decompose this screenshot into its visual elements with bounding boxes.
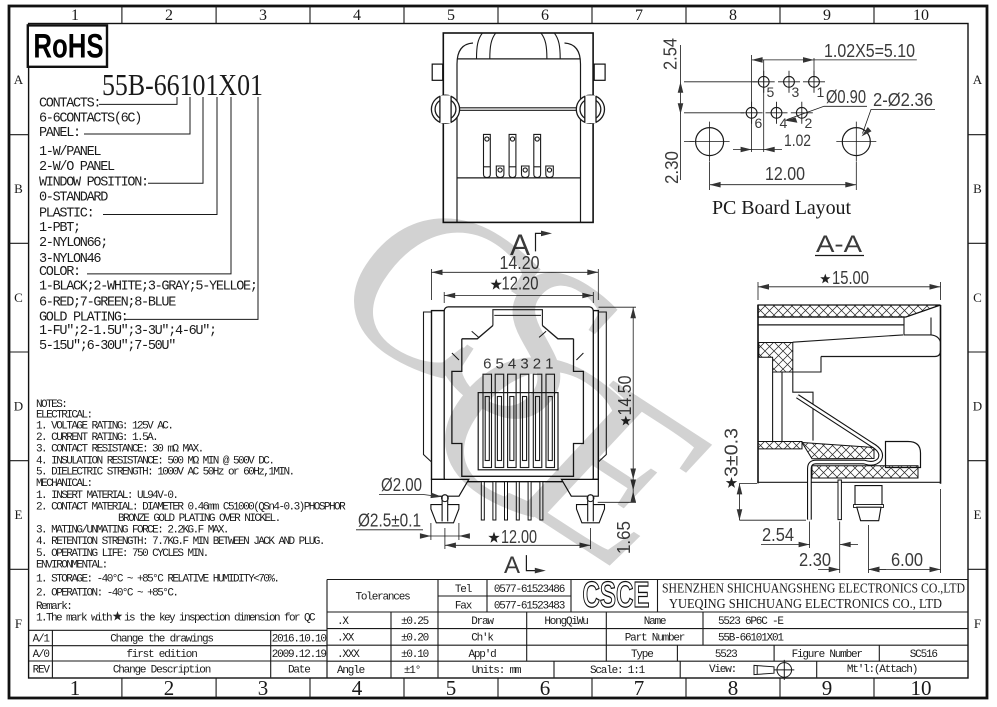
svg-text:1: 1 — [70, 676, 81, 700]
svg-text:2: 2 — [165, 7, 173, 24]
top view outer body — [443, 33, 593, 222]
svg-text:5: 5 — [767, 84, 775, 100]
svg-text:Draw: Draw — [471, 616, 494, 628]
svg-text:15.00: 15.00 — [832, 268, 869, 288]
svg-text:2.54: 2.54 — [762, 525, 794, 545]
svg-text:4: 4 — [353, 7, 361, 24]
svg-text:.X: .X — [337, 616, 349, 628]
top view inner top shelf line — [457, 58, 581, 60]
svg-text:±1°: ±1° — [404, 665, 420, 677]
dim 3+-0.3 (A-A left) — [722, 428, 807, 520]
dim 12.00 (front bottom) — [445, 527, 591, 549]
svg-text:6: 6 — [540, 676, 551, 700]
svg-text:9: 9 — [823, 7, 831, 24]
svg-text:5: 5 — [446, 676, 457, 700]
svg-text:A/0: A/0 — [33, 649, 50, 661]
svg-text:10: 10 — [911, 676, 932, 700]
section outer top hatched shell — [758, 305, 941, 317]
svg-text:A-A: A-A — [816, 231, 862, 258]
svg-text:A: A — [973, 72, 983, 87]
svg-text:10: 10 — [913, 7, 929, 24]
front body rounded rect — [444, 307, 593, 482]
svg-text:2-Ø2.36: 2-Ø2.36 — [873, 90, 933, 110]
svg-text:2-W/O PANEL: 2-W/O PANEL — [39, 160, 115, 175]
svg-text:7: 7 — [635, 7, 643, 24]
svg-text:6-6CONTACTS(6C): 6-6CONTACTS(6C) — [39, 111, 141, 126]
revision table — [29, 630, 327, 677]
svg-text:1.02: 1.02 — [784, 131, 811, 150]
svg-text:D: D — [14, 399, 23, 414]
svg-text:.XX: .XX — [337, 633, 355, 645]
svg-text:7: 7 — [634, 676, 645, 700]
svg-text:4. INSULATION RESISTANCE: 500: 4. INSULATION RESISTANCE: 500 MΩ MIN @ 5… — [36, 455, 273, 467]
svg-text:Figure Number: Figure Number — [792, 649, 863, 661]
svg-text:5-15U″;6-30U″;7-50U″: 5-15U″;6-30U″;7-50U″ — [39, 339, 175, 354]
front contact numbers 6 5 4 3 2 1 — [483, 356, 553, 373]
dim 14.20 (front top) — [432, 253, 599, 300]
svg-text:PC Board Layout: PC Board Layout — [712, 197, 851, 219]
section left hatch block — [759, 343, 793, 373]
notes block — [36, 399, 346, 624]
svg-text:4: 4 — [352, 676, 363, 700]
svg-text:3: 3 — [259, 7, 267, 24]
pin holes small top row 5 3 1 — [746, 76, 819, 118]
svg-text:1-FU″;2-1.5U″;3-3U″;4-6U″;: 1-FU″;2-1.5U″;3-3U″;4-6U″; — [39, 324, 216, 339]
svg-text:55B-66101X01: 55B-66101X01 — [102, 67, 263, 102]
dim 12.20 (front) — [444, 274, 593, 304]
dim 1.65 (front right) — [598, 480, 636, 555]
section bottom line — [758, 481, 941, 483]
svg-text:1.The mark with: 1.The mark with — [36, 612, 112, 624]
svg-text:3. MATING/UNMATING FORCE: 2.2K: 3. MATING/UNMATING FORCE: 2.2KG.F MAX. — [36, 525, 228, 537]
dim 2.30 (pcb left) — [681, 113, 695, 180]
svg-text:Scale: 1:1: Scale: 1:1 — [590, 665, 646, 677]
svg-text:8: 8 — [728, 676, 739, 700]
part number leader lines — [84, 97, 258, 319]
dim 2-dia2.36 leader — [863, 110, 936, 134]
svg-text:2: 2 — [805, 115, 813, 131]
svg-text:5523 6P6C -E: 5523 6P6C -E — [718, 616, 784, 628]
title block / tolerances table — [327, 574, 968, 680]
dim 2.30 (A-A bottom) — [799, 525, 886, 573]
svg-text:6: 6 — [541, 7, 549, 24]
svg-text:PANEL:: PANEL: — [39, 126, 80, 141]
svg-text:RoHS: RoHS — [33, 28, 103, 65]
section cavity ceiling slope — [793, 335, 941, 342]
top view contact base line — [457, 177, 581, 179]
svg-text:Type: Type — [631, 649, 653, 661]
section shell lines — [758, 317, 904, 325]
svg-text:5523: 5523 — [715, 649, 737, 661]
svg-text:1. VOLTAGE RATING: 125V AC.: 1. VOLTAGE RATING: 125V AC. — [36, 421, 172, 433]
svg-text:Date: Date — [288, 665, 310, 677]
svg-text:A/1: A/1 — [33, 634, 51, 646]
svg-text:4: 4 — [780, 115, 788, 131]
svg-text:Angle: Angle — [337, 665, 365, 677]
section cavity floor — [821, 351, 941, 357]
dim 12.00 (pcb) — [710, 162, 857, 190]
section left edge — [757, 305, 759, 483]
svg-text:5. DIELECTRIC STRENGTH: 1000V: 5. DIELECTRIC STRENGTH: 1000V AC 50Hz or… — [36, 467, 294, 479]
svg-text:Change Description: Change Description — [113, 665, 211, 677]
dim 1.02 — [733, 149, 782, 151]
front left post — [431, 505, 459, 523]
svg-text:E: E — [974, 507, 982, 522]
svg-text:YUEQING SHICHUANG ELECTRONICS: YUEQING SHICHUANG ELECTRONICS CO., LTD — [669, 597, 942, 612]
svg-text:1. STORAGE: -40°C ~ +85°C RELA: 1. STORAGE: -40°C ~ +85°C RELATIVE HUMID… — [36, 574, 278, 586]
svg-text:2-NYLON66;: 2-NYLON66; — [39, 236, 107, 251]
svg-text:A: A — [14, 72, 24, 87]
mounting holes 2-dia2.36 — [696, 128, 871, 156]
svg-text:±0.10: ±0.10 — [401, 649, 429, 661]
top view left side tab — [432, 64, 443, 80]
svg-text:1.02X5=5.10: 1.02X5=5.10 — [824, 41, 915, 61]
svg-text:B: B — [14, 181, 23, 196]
svg-text:2: 2 — [164, 676, 175, 700]
svg-text:CONTACTS:: CONTACTS: — [39, 96, 100, 111]
svg-text:Units: mm: Units: mm — [472, 665, 522, 677]
svg-text:REV: REV — [33, 665, 51, 677]
section sloped mid hatch — [802, 443, 874, 459]
svg-text:12.00: 12.00 — [765, 164, 805, 184]
svg-text:C: C — [14, 290, 23, 305]
svg-text:6.00: 6.00 — [891, 550, 923, 570]
svg-text:±0.25: ±0.25 — [401, 616, 429, 628]
top view inner left wall — [457, 43, 473, 223]
top view right side tab — [594, 64, 605, 80]
top view cross bar double line — [460, 108, 577, 111]
svg-text:Fax: Fax — [455, 601, 473, 613]
svg-text:.XXX: .XXX — [337, 649, 360, 661]
front right clip strip — [598, 312, 606, 462]
svg-text:Part Number: Part Number — [625, 633, 685, 645]
front right post — [577, 505, 605, 523]
svg-text:Change the drawings: Change the drawings — [110, 634, 213, 646]
dim 15.00 (A-A top) — [758, 268, 941, 300]
top view contact wires short — [496, 166, 553, 178]
svg-text:Remark:: Remark: — [36, 601, 71, 613]
front contact blades — [483, 374, 555, 467]
dim 2.54 (pcb left) — [681, 45, 758, 113]
front jack opening sides — [452, 339, 584, 477]
dim dia2.00 (front left) — [379, 475, 442, 498]
section pin 2 — [838, 480, 841, 520]
section lower-left thin hatch — [758, 442, 802, 449]
dim 1.02X5=5.10 — [752, 55, 917, 152]
svg-text:BRONZE GOLD PLATING OVER NICKE: BRONZE GOLD PLATING OVER NICKEL. — [118, 513, 280, 525]
svg-text:SC516: SC516 — [910, 649, 938, 661]
svg-text:1: 1 — [71, 7, 79, 24]
svg-text:3. CONTACT RESISTANCE: 30 mΩ M: 3. CONTACT RESISTANCE: 30 mΩ MAX. — [36, 444, 203, 456]
svg-text:Ø2.5±0.1: Ø2.5±0.1 — [358, 511, 421, 531]
svg-text:COLOR:: COLOR: — [39, 265, 80, 280]
section right edge — [940, 305, 942, 484]
svg-text:6-RED;7-GREEN;8-BLUE: 6-RED;7-GREEN;8-BLUE — [39, 296, 176, 311]
svg-text:2009.12.19: 2009.12.19 — [272, 649, 327, 661]
svg-text:2.30: 2.30 — [662, 151, 682, 184]
svg-text:SHENZHEN SHICHUANGSHENG ELECTR: SHENZHEN SHICHUANGSHENG ELECTRONICS CO.,… — [662, 582, 965, 597]
svg-text:2.30: 2.30 — [799, 550, 831, 570]
top view contact wires tall — [484, 134, 541, 177]
svg-text:4. RETENTION STRENGTH: 7.7KG.F: 4. RETENTION STRENGTH: 7.7KG.F MIN BETWE… — [36, 536, 324, 548]
svg-text:is the key inspection dimensio: is the key inspection dimension for QC — [124, 612, 316, 624]
svg-text:C: C — [973, 290, 982, 305]
svg-text:8: 8 — [729, 7, 737, 24]
svg-text:first edition: first edition — [126, 649, 197, 661]
front bottom wings — [432, 479, 469, 496]
top view screw boss left — [431, 95, 459, 123]
svg-text:WINDOW POSITION:: WINDOW POSITION: — [39, 175, 148, 190]
front jack opening shoulders — [462, 326, 574, 339]
svg-text:3±0.3: 3±0.3 — [722, 428, 742, 477]
svg-text:App'd: App'd — [468, 649, 496, 661]
company names — [662, 582, 965, 613]
svg-text:9: 9 — [822, 676, 833, 700]
top view screw boss right — [576, 95, 604, 123]
front jack opening: notch — [493, 310, 543, 326]
front left clip strip — [424, 312, 432, 462]
section spring wire — [797, 396, 880, 519]
section arrow A (below front view) — [504, 552, 546, 579]
svg-text:3: 3 — [258, 676, 269, 700]
svg-text:Name: Name — [644, 616, 666, 628]
svg-text:Tel: Tel — [455, 584, 472, 596]
svg-text:Ø0.90: Ø0.90 — [826, 87, 866, 107]
svg-text:1-W/PANEL: 1-W/PANEL — [39, 145, 101, 160]
svg-text:HongQiWu: HongQiWu — [544, 616, 588, 628]
part number option labels — [39, 96, 257, 354]
section nose — [886, 442, 921, 468]
svg-text:2. CURRENT RATING: 1.5A.: 2. CURRENT RATING: 1.5A. — [36, 432, 157, 444]
svg-text:1-BLACK;2-WHITE;3-GRAY;5-YELLO: 1-BLACK;2-WHITE;3-GRAY;5-YELLOE; — [39, 280, 257, 295]
svg-text:0577-61523483: 0577-61523483 — [494, 601, 565, 613]
svg-text:Mt'l:(Attach): Mt'l:(Attach) — [847, 664, 917, 676]
front pins — [481, 482, 543, 520]
dim dia2.5 (front left) — [356, 511, 470, 541]
front flange plate — [432, 311, 599, 480]
svg-text:2. CONTACT MATERIAL: DIAMETER: 2. CONTACT MATERIAL: DIAMETER 0.46mm C51… — [36, 501, 346, 513]
top view inner right wall — [565, 43, 581, 223]
svg-text:2.54: 2.54 — [661, 38, 681, 70]
svg-text:F: F — [15, 616, 22, 631]
svg-text:F: F — [974, 616, 981, 631]
front contact window frame — [478, 393, 558, 470]
svg-text:D: D — [973, 399, 982, 414]
dim 2.54 (A-A bottom) — [761, 522, 858, 574]
top view latch curves — [477, 33, 483, 59]
svg-text:3: 3 — [792, 84, 800, 100]
svg-text:Tolerances: Tolerances — [355, 592, 410, 604]
svg-text:2. OPERATION: -40°C ~ +85°C.: 2. OPERATION: -40°C ~ +85°C. — [36, 588, 177, 600]
svg-text:1. INSERT MATERIAL: UL94V-0.: 1. INSERT MATERIAL: UL94V-0. — [36, 490, 177, 502]
svg-text:PLASTIC:: PLASTIC: — [39, 207, 93, 222]
svg-text:ENVIRONMENTAL:: ENVIRONMENTAL: — [36, 559, 107, 571]
svg-text:Ch'k: Ch'k — [471, 633, 494, 645]
svg-text:View:: View: — [709, 664, 736, 676]
front chamfer ticks — [452, 331, 584, 360]
dim dia 0.90 leader — [787, 106, 868, 120]
svg-text:6: 6 — [755, 115, 763, 131]
svg-text:B: B — [973, 181, 982, 196]
RoHS logo box — [28, 25, 107, 66]
svg-text:55B-66101X01: 55B-66101X01 — [718, 633, 784, 645]
dim 14.50 (front right) — [599, 307, 637, 479]
svg-text:E: E — [15, 507, 23, 522]
section mounting post — [855, 486, 882, 505]
third angle projection symbol — [754, 660, 794, 680]
svg-text:±0.20: ±0.20 — [401, 633, 429, 645]
svg-text:1-PBT;: 1-PBT; — [39, 221, 80, 236]
svg-text:1: 1 — [817, 84, 825, 100]
svg-text:0-STANDARD: 0-STANDARD — [39, 190, 108, 205]
svg-text:5: 5 — [447, 7, 455, 24]
watermark CSCE script — [293, 130, 746, 623]
dim 6.00 (A-A bottom) — [869, 489, 941, 573]
section right pocket — [904, 318, 931, 335]
svg-text:2016.10.10: 2016.10.10 — [272, 634, 327, 646]
section bottom hatch band — [812, 466, 918, 478]
svg-text:MECHANICAL:: MECHANICAL: — [36, 478, 92, 490]
section arrow A (between views) — [510, 229, 552, 262]
section step shelf — [773, 357, 821, 443]
svg-text:5. OPERATING LIFE: 750 CYCLES: 5. OPERATING LIFE: 750 CYCLES MIN. — [36, 548, 208, 560]
